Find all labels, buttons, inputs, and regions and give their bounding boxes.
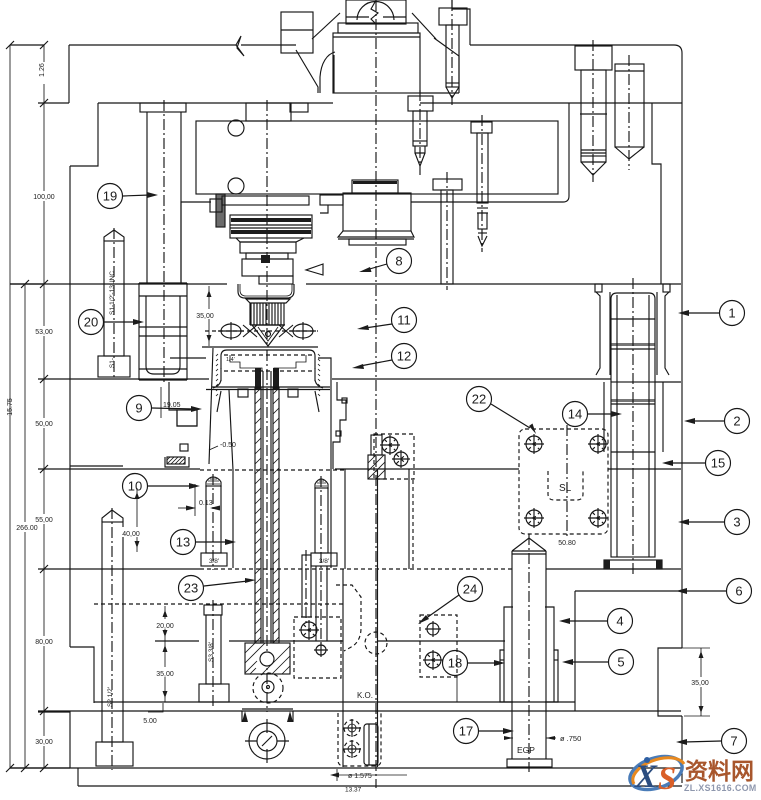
nozzle head left ear [320,195,343,205]
screw circle A [228,120,244,136]
crown top rounded band [221,350,315,369]
crown left foot [213,380,221,388]
sprue cup flange [238,284,294,298]
bottom plate top y711 [38,710,681,712]
bolt B1 sleeve [139,283,187,380]
dim ext lines [10,45,70,768]
watermark logo orange ellipse [633,758,684,784]
sprue clamp hatched pin [216,194,225,227]
top clamp plate top edge left [69,44,236,46]
bolt D tip [415,146,425,166]
balloon 14 [563,402,623,427]
balloon 3 [678,510,750,535]
comb funnel [246,299,290,303]
svg-text:40,00: 40,00 [122,531,140,538]
bolt C head [439,8,467,25]
pillar lower body [611,382,655,557]
SL notch dashed [548,471,583,500]
bolt A shaft [581,70,606,156]
pillar bore lines [616,295,618,557]
screw target b [314,643,328,657]
spring rect [364,724,378,765]
comb teeth [250,303,285,325]
stripper plate top left [170,357,206,359]
core pin bore lines [262,371,264,643]
svg-text:8: 8 [395,254,402,269]
balloon 18 [443,651,506,676]
right notch [658,648,682,716]
svg-text:10: 10 [128,479,142,494]
balloon 4 [559,609,633,634]
KO rod right edge [377,469,379,767]
svg-text:1/4′: 1/4′ [226,357,235,363]
left edge main [69,166,71,647]
sprue column centerline [266,100,268,346]
bolt S3 head [199,684,229,702]
svg-text:ZL.XS1616.COM: ZL.XS1616.COM [684,783,757,793]
svg-text:S1-1/2′-13UNC: S1-1/2′-13UNC [109,271,116,315]
svg-text:-0.50: -0.50 [220,442,236,449]
sprue clamp bracket [210,199,222,212]
sprue flange [222,196,309,205]
dim ticks [6,41,48,772]
svg-text:80,00: 80,00 [35,639,53,646]
EGP pillar column [511,551,513,759]
core pin head hatched [245,643,290,674]
bushing wall left [596,292,600,375]
SL screw 1 [524,434,544,454]
step square a [342,398,347,403]
watermark logo blue ellipse [626,750,687,795]
bolt A head [575,46,612,70]
B-plate slot wall left [344,469,346,569]
svg-text:50,00: 50,00 [35,421,53,428]
EGP pillar chamfer top [512,538,546,551]
svg-text:14: 14 [568,407,582,422]
svg-text:13.37: 13.37 [345,787,362,794]
svg-text:5.00: 5.00 [143,718,157,725]
wedge block left [177,410,197,426]
balloon 19 [98,184,159,209]
svg-text:35,00: 35,00 [691,680,709,687]
dim text 80.00 [31,636,58,646]
screw target e [425,621,441,637]
small block right of tab [290,103,308,112]
dim .750 [504,736,555,740]
EGP dashed outline bottom [338,713,381,766]
screw target a [299,620,319,640]
KO coupling pin [262,681,274,693]
EGP bushing right [545,607,558,702]
svg-text:11: 11 [397,313,411,328]
stud E tip [478,236,487,246]
sprue neck [246,253,288,259]
sprue pocket wall left [181,202,211,283]
svg-text:50.80: 50.80 [558,540,576,547]
svg-text:13: 13 [176,535,190,550]
machine nozzle dome housing [346,0,406,24]
svg-text:19: 19 [103,189,117,204]
balloon 23 [179,576,257,601]
nozzle body [333,33,420,93]
dim 5.00 [148,703,163,712]
bushing wall right [665,292,669,375]
pocket edge right [330,390,332,568]
pocket slant right [315,391,319,412]
nozzle cap [352,180,398,193]
bushing lip right [663,284,670,292]
bolt S2 shaft [102,522,123,742]
right notch dim ext [660,647,710,649]
bolt D head [408,96,433,111]
balloon 24 [418,577,483,625]
svg-text:S: S [658,761,676,797]
plate joint y466 double [70,465,123,467]
svg-text:17: 17 [459,724,473,739]
dim 35,00 upper [208,286,210,346]
crown feet tabs [238,389,248,397]
nozzle head block [343,193,411,231]
pointer wedge [306,264,323,275]
balloon 7 [676,729,747,754]
dome arc [357,2,394,20]
parting dashed line y331 [205,330,318,332]
stud E head [471,122,492,133]
crown skirt lines [212,386,330,388]
KO rod collar [433,179,462,190]
svg-text:266.00: 266.00 [16,525,38,532]
dim text 50.00 [31,418,58,428]
svg-text:30,00: 30,00 [35,739,53,746]
crown interior steps [230,355,262,371]
bolt S1 head [98,356,130,377]
svg-text:12: 12 [397,349,411,364]
bolt S2 head [96,742,133,766]
dim line 15.75 overall [9,45,11,768]
hatched bolt mid [371,435,382,455]
svg-text:7: 7 [730,734,737,749]
dim text 1.26 [39,62,49,84]
svg-text:4: 4 [616,614,623,629]
ejector dashed box left [294,617,341,678]
svg-text:6: 6 [735,584,742,599]
KO pad arrows [242,711,293,722]
dim line 266.00 [24,284,26,768]
sprue cone tip [252,325,284,346]
svg-text:5: 5 [617,655,624,670]
x-mark right [279,325,293,337]
x-mark left [243,325,257,337]
svg-text:SL: SL [559,483,572,494]
top plate left edge [68,45,70,103]
crown top line [202,346,318,348]
stripper bolt L dome [206,477,221,487]
crown right wall thick [314,368,316,381]
KO hole target [245,719,289,763]
svg-text:K.O.: K.O. [357,691,373,700]
cavity taper line [209,348,213,464]
left step x98 [70,103,98,166]
ejector dashed box right [420,615,457,677]
svg-text:24: 24 [463,582,477,597]
return pin rod [302,555,311,617]
dim 20,00 [164,606,166,641]
dim 35,00 lower [164,641,166,702]
ejector base top y641 [155,640,199,642]
parting step profile right [333,382,346,469]
small insert left [180,444,188,451]
core pin left wall hatched [255,388,261,643]
nozzle head taper [338,231,414,237]
EGP bushing left [500,607,513,702]
dome break zigzag [371,2,378,24]
step square b [336,431,341,436]
bolt A tip [581,156,606,175]
bottom plate bottom y768 [10,767,682,769]
locating ring band [338,23,418,33]
SL screw 3 [524,508,544,528]
balloon 1 [678,301,745,326]
sprue block [240,242,296,253]
svg-text:15.75: 15.75 [7,398,14,416]
balloon 12 [352,344,417,370]
B-plate slot wall right [408,469,410,569]
core pin right wall hatched [273,388,279,643]
break symbol top plate [236,36,244,56]
core head circle [260,652,274,666]
svg-text:35,00: 35,00 [156,671,174,678]
sprue washer stack [230,215,312,238]
svg-text:20,00: 20,00 [156,623,174,630]
dim 0,13 [194,484,196,516]
svg-text:53,00: 53,00 [35,329,53,336]
svg-text:55,00: 55,00 [35,517,53,524]
KO rod left edge [342,569,344,767]
svg-text:X: X [634,759,658,795]
crown left wall thick [220,368,222,381]
lower platen line y786 [78,785,682,787]
SL screw 4 [588,508,608,528]
pocket edge left [229,390,233,568]
balloon 13 [171,530,237,555]
bolt S3 collar [204,605,222,615]
SL support pillar dashed footprint [519,429,608,534]
top clamp plate top edge right [470,44,674,46]
dim text 100.00 [29,191,60,201]
watermark logo dot [644,757,650,763]
plate joint y284 [10,283,227,285]
stripper bolt L shaft [206,486,221,553]
svg-text:3: 3 [733,515,740,530]
KO coupling dashed circle [253,673,283,703]
left step ejector housing [70,647,94,703]
svg-text:20: 20 [84,315,98,330]
sprue bottom piece [259,276,293,284]
left edge bottom plate [69,711,71,768]
nozzle head bottom [349,239,406,245]
svg-text:资料网: 资料网 [685,758,754,784]
svg-text:ø .750: ø .750 [560,734,581,743]
pillar base [604,560,662,569]
balloon 15 [662,451,731,476]
stripper bolt M lower shaft [315,566,317,641]
svg-text:100,00: 100,00 [33,194,55,201]
screw circle B [228,178,244,194]
stripper bolt M head 3/8 [311,553,337,566]
screw target f [423,650,443,670]
sprue seal dark square [261,255,270,263]
rail block left edge [574,591,576,711]
svg-text:EGP: EGP [517,745,535,755]
dim 50.80 [556,537,578,546]
dim text 55.00 [31,514,58,524]
bolt S1 shaft [104,241,124,356]
platen pocket slope right [434,38,459,93]
svg-text:23: 23 [184,581,198,596]
svg-text:22: 22 [472,392,486,407]
svg-text:1.26: 1.26 [39,63,46,77]
screw target d [392,450,410,468]
bolt B1 head [140,103,186,112]
svg-text:35,00: 35,00 [196,313,214,320]
cone center circle [266,332,271,337]
balloon 8 [359,249,412,274]
EGP base flange [507,759,552,767]
lower bushing walls [603,382,605,452]
hatched gib left [167,457,185,464]
main vertical centerline K.O. axis [375,0,377,788]
KO slot dashed profile [336,585,361,651]
svg-text:2: 2 [733,414,740,429]
dim text 30.00 [31,736,58,746]
crown interior dashed [224,354,312,356]
svg-text:15: 15 [711,456,725,471]
svg-text:1: 1 [728,306,735,321]
svg-text:18: 18 [448,656,462,671]
stripper bolt M dome [315,479,328,489]
vent target right [293,324,313,338]
platen step right of nozzle [452,0,470,45]
bolt B1 shaft [146,112,148,283]
svg-text:ø 1.575: ø 1.575 [348,773,372,780]
svg-text:S1-: S1- [109,358,116,368]
clamp hook left [320,52,335,93]
bolt S3 shaft [206,615,221,684]
locating ring shoulders [312,13,340,39]
vent target left [221,324,241,338]
sprue taper [236,238,304,242]
dim line stack x44 [43,45,45,768]
balloon 17 [454,719,515,744]
SL screw 2 [588,434,608,454]
svg-text:3/8′: 3/8′ [319,558,330,565]
KO rod shaft [441,190,453,284]
B-plate slot dashed edge [412,480,414,569]
stripper bolt L head 3/8 [201,553,227,566]
dim 35,00 right [700,648,702,716]
svg-text:0.13: 0.13 [199,500,213,507]
screw target c [380,435,400,455]
sprue lower block [242,259,293,276]
balloon 20 [79,310,145,335]
guide pillar body [611,293,655,382]
ejector base bottom y702 [94,701,575,703]
SL centerline [566,425,568,545]
dim 1.575 [330,773,339,778]
pocket slant left [217,391,221,412]
rail block top y591 [575,590,681,592]
lower pocket outline right [411,103,569,202]
parting step profile left [169,382,197,426]
right outer edge [674,45,682,648]
svg-text:S2 1/2′: S2 1/2′ [107,686,114,707]
plate joint y569 [38,568,200,570]
plate joint y103 [98,102,333,104]
dowel B body [615,64,644,147]
svg-text:3/8′: 3/8′ [209,558,220,565]
stud E shaft [477,133,488,203]
balloon 22 [467,387,537,435]
platen pocket slope left [296,50,318,93]
balloon 5 [562,650,634,675]
bolt D shaft [413,111,427,146]
ejector retainer top dashed [94,603,343,605]
bolt S1 dome [104,230,124,241]
balloon 6 [676,579,752,604]
ejector dashed box mid [374,434,414,479]
balloon 10 [123,474,201,499]
balloon 2 [684,409,750,434]
balloon 9 [127,396,203,421]
crown right foot [315,380,323,388]
stripper bolt M shaft [315,488,328,553]
dowel B tip [615,147,644,159]
dim 19.05 [160,387,162,418]
dim 40,00 [136,488,138,552]
inner pocket rectangle [196,121,558,194]
dim text 53.00 [31,326,58,336]
svg-text:9: 9 [135,401,142,416]
balloon 11 [357,308,417,333]
dim 0.50 leader [209,446,218,450]
EGP dashed screw b [343,740,361,758]
A-plate right step [652,103,661,284]
plate joint y379 [38,378,209,380]
bushing lip left [595,284,602,292]
KO pad line [242,708,293,710]
EGP dashed screw a [343,719,361,737]
tab block on pocket [246,103,291,121]
left platen block [281,12,313,53]
svg-text:S3 3/8′: S3 3/8′ [208,641,215,662]
KO rod dashed circle [365,632,387,654]
core bore dark walls [255,368,261,389]
bolt C tip [446,87,459,98]
stripper plate top right [318,358,331,390]
bolt S2 dome [102,510,123,522]
bolt C shaft [446,25,459,87]
